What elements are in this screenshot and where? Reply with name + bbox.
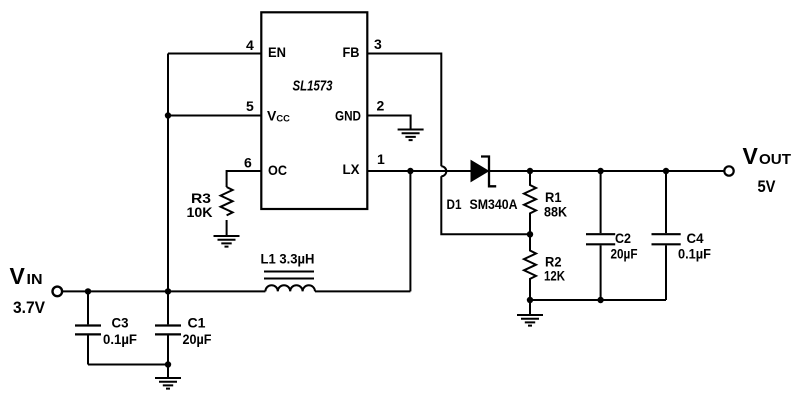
wire left vertical EN/Vcc to VIN rail [167, 54, 169, 292]
svg-text:6: 6 [244, 155, 252, 171]
terminal VOUT [724, 166, 733, 175]
wire inductor to LX vertical [315, 290, 410, 292]
diode D1 SM340A [447, 157, 518, 213]
svg-text:C4: C4 [687, 230, 704, 246]
wire hop over LX rail [441, 166, 446, 176]
node C4 top [663, 168, 669, 174]
terminal VIN [53, 287, 63, 297]
IC U1 SL1573 body [261, 12, 367, 209]
capacitor C3 [75, 291, 137, 364]
svg-text:V: V [10, 263, 26, 289]
svg-text:C2: C2 [615, 230, 631, 246]
wire EN pin 4 [168, 53, 261, 55]
ground GND pin [398, 130, 424, 141]
svg-text:FB: FB [343, 44, 360, 60]
node feedback divider junction [527, 231, 533, 237]
svg-text:5V: 5V [758, 177, 777, 196]
wire R3 to ground [226, 220, 228, 236]
svg-text:C3: C3 [112, 315, 129, 331]
node LX junction [407, 168, 413, 174]
node C2 top [597, 168, 603, 174]
svg-text:L1 3.3µH: L1 3.3µH [261, 251, 315, 267]
svg-text:12K: 12K [544, 268, 565, 284]
ground C1 [155, 365, 181, 389]
svg-text:0.1µF: 0.1µF [103, 331, 137, 347]
wire bottom right rail [530, 299, 666, 301]
node C1 tee [165, 288, 171, 294]
wire Vcc pin 5 [168, 115, 261, 117]
svg-text:20µF: 20µF [611, 246, 638, 262]
node R1 top [527, 168, 533, 174]
wire output rail diode to VOUT terminal [488, 170, 725, 172]
ground R3 [214, 236, 240, 247]
svg-text:OUT: OUT [759, 151, 791, 168]
svg-text:D1: D1 [447, 196, 462, 212]
svg-text:0.1µF: 0.1µF [678, 246, 711, 262]
resistor R2 [524, 234, 565, 300]
svg-text:SL1573: SL1573 [293, 78, 333, 95]
svg-text:88K: 88K [544, 204, 567, 220]
wire FB vertical below hop to divider [441, 176, 530, 234]
label VIN [10, 263, 46, 317]
resistor R1 [524, 171, 567, 234]
capacitor C1 [155, 291, 212, 364]
svg-text:C1: C1 [188, 315, 206, 331]
wire C3 bottom to C1 bottom [88, 364, 168, 366]
node C3 tee [85, 288, 91, 294]
svg-text:10K: 10K [187, 204, 213, 220]
svg-text:2: 2 [377, 98, 385, 114]
svg-text:SM340A: SM340A [470, 196, 518, 212]
svg-text:GND: GND [335, 108, 361, 124]
wire FB pin 3 to feedback tap [367, 54, 441, 167]
svg-text:3: 3 [374, 36, 382, 52]
inductor L1 [261, 251, 316, 292]
capacitor C2 [586, 171, 638, 300]
capacitor C4 [652, 171, 712, 300]
svg-text:20µF: 20µF [183, 331, 212, 347]
node R2 bottom [527, 297, 533, 303]
svg-text:5: 5 [246, 98, 254, 114]
svg-text:1: 1 [377, 151, 385, 167]
svg-text:V: V [743, 143, 759, 169]
svg-text:4: 4 [246, 37, 254, 53]
svg-text:3.7V: 3.7V [13, 298, 46, 317]
svg-text:OC: OC [268, 162, 287, 178]
wire LX down to inductor [409, 171, 411, 291]
svg-text:EN: EN [268, 44, 286, 60]
svg-text:IN: IN [27, 271, 43, 288]
node Vcc junction [165, 112, 171, 118]
node C1 bottom [165, 361, 171, 367]
ground R2 [517, 300, 543, 326]
wire GND pin 2 [367, 116, 410, 129]
node C2 bottom [597, 297, 603, 303]
wire LX pin 1 to diode [367, 170, 471, 172]
wire VIN rail [62, 290, 265, 292]
resistor R3 [187, 187, 233, 220]
label VOUT [743, 143, 792, 196]
svg-text:LX: LX [343, 161, 361, 177]
wire OC pin 6 to R3 [227, 171, 262, 187]
